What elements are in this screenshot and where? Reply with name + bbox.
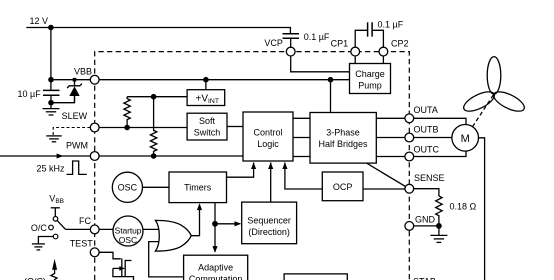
wire C1 bottom to ground node <box>51 95 75 102</box>
svg-text:Half Bridges: Half Bridges <box>318 139 368 149</box>
svg-text:CP1: CP1 <box>331 39 349 49</box>
wire motor return <box>479 138 485 280</box>
gate OR <box>155 220 191 251</box>
wire switch ground leg <box>38 237 53 244</box>
svg-text:Logic: Logic <box>257 139 279 149</box>
wire CP2 to charge pump <box>382 56 384 64</box>
wire Timers to sequencer/adaptive <box>214 203 216 252</box>
box 3-Phase Half Bridges <box>310 113 376 164</box>
wire TEST to mosfet gate <box>99 252 121 258</box>
wire PWM input <box>0 155 243 157</box>
box Control Logic <box>243 112 293 161</box>
wire bridges to OUTC <box>376 156 405 158</box>
svg-text:OUTC: OUTC <box>414 144 440 154</box>
waveform pulse symbol <box>67 161 87 174</box>
terminal SLEW <box>90 123 99 132</box>
terminal OUTB <box>405 133 414 142</box>
junction VINT tap <box>203 77 209 83</box>
wire VBB to switch contact <box>51 208 60 217</box>
terminal CP2 <box>379 47 388 56</box>
arrow into timers from OR <box>197 203 202 210</box>
wire bridges to OUTB <box>376 137 405 139</box>
svg-text:OSC: OSC <box>118 183 138 193</box>
junction R2 top <box>151 94 157 100</box>
fan blade left <box>461 88 497 115</box>
wire OUTA to motor <box>414 118 466 124</box>
svg-text:Adaptive: Adaptive <box>198 262 233 272</box>
terminal PWM <box>90 152 99 161</box>
terminal OUTA <box>405 114 414 123</box>
arrow into adaptive commutation <box>212 246 217 253</box>
svg-text:TEST: TEST <box>70 239 94 249</box>
box position sense (cut off) <box>284 274 347 280</box>
svg-text:25 kHz: 25 kHz <box>37 164 66 174</box>
terminal TEST <box>90 248 99 257</box>
wire OUTB to motor <box>414 137 452 139</box>
wire startup osc to OR gate <box>143 228 159 230</box>
svg-text:10 µF: 10 µF <box>18 89 42 99</box>
junction C1 bottom <box>48 100 54 106</box>
capacitor CP 0.1uF <box>355 19 403 47</box>
svg-text:Control: Control <box>253 128 282 138</box>
wire OR output to timers <box>191 204 199 235</box>
junction VBB-C1 <box>48 77 54 83</box>
wire Timers to control logic <box>227 163 254 178</box>
box Soft Switch <box>187 113 227 140</box>
svg-text:GND: GND <box>415 215 436 225</box>
svg-text:FC: FC <box>79 216 91 226</box>
wire sequencer to control logic <box>270 163 272 203</box>
wire OCP to control logic <box>285 163 322 190</box>
svg-text:VBB: VBB <box>74 67 92 77</box>
wire bridges to sense diagonal <box>367 163 406 187</box>
ground SLEW option <box>46 136 61 142</box>
svg-text:Timers: Timers <box>184 183 212 193</box>
terminal VCP <box>286 47 295 56</box>
wire FC to startup osc <box>99 228 115 230</box>
svg-text:SLEW: SLEW <box>62 111 88 121</box>
switch FC selector <box>49 217 66 239</box>
svg-text:Charge: Charge <box>355 69 385 79</box>
wire VINT stub <box>205 80 207 90</box>
fan blade up <box>487 57 501 95</box>
wire control to bridges B <box>293 137 310 139</box>
junction 12V rail <box>48 25 54 31</box>
ground shunt <box>430 226 447 243</box>
resistor shunt 0.18 ohm <box>436 196 442 226</box>
terminal FC <box>90 225 99 234</box>
wire OCP to sense <box>363 188 405 190</box>
svg-text:OSC: OSC <box>119 235 137 245</box>
junction R1-SLEW <box>124 125 130 131</box>
wire half-bridge supply <box>330 80 332 113</box>
transistor test mosfet <box>113 259 134 280</box>
svg-text:Sequencer: Sequencer <box>247 215 291 225</box>
wire 12V supply rail <box>26 28 290 34</box>
svg-text:12 V: 12 V <box>30 16 49 26</box>
wire sense to shunt <box>414 189 439 196</box>
box Adaptive Commutation <box>184 255 248 280</box>
wire control to bridges A <box>293 117 310 119</box>
resistor R2 pwm pull-up <box>150 97 156 156</box>
svg-text:(O/C): (O/C) <box>24 276 46 280</box>
oscillator OSC <box>112 172 142 202</box>
wire VBB rail <box>51 79 350 81</box>
svg-text:OCP: OCP <box>333 182 353 192</box>
svg-text:VCP: VCP <box>264 38 283 48</box>
svg-text:Commutation: Commutation <box>189 274 243 280</box>
wire to sequencer <box>215 223 240 225</box>
motor M <box>452 125 479 152</box>
svg-text:PWM: PWM <box>66 141 88 151</box>
svg-text:Pump: Pump <box>358 81 382 91</box>
wire OUTC to motor <box>414 151 466 156</box>
fan blade right <box>491 88 527 115</box>
terminal SENSE <box>405 184 414 193</box>
resistor R1 slew pull-up <box>124 97 130 128</box>
terminal OUTC <box>405 152 414 161</box>
arrow into control logic from OCP <box>282 162 287 169</box>
svg-text:STAB: STAB <box>413 277 436 280</box>
arrow PWM input <box>57 154 64 159</box>
wire SLEW dotted ground option <box>53 128 90 136</box>
terminal VBB <box>90 75 99 84</box>
wire SLEW to soft switch <box>99 127 187 129</box>
IC boundary dashed <box>95 52 410 280</box>
box Sequencer (Direction) <box>242 202 297 244</box>
svg-text:OUTB: OUTB <box>414 125 439 135</box>
fan shaft dashed <box>473 94 495 127</box>
wire VCP to charge pump <box>291 56 350 72</box>
wire GND to shunt <box>414 225 439 227</box>
svg-text:O/C: O/C <box>31 223 48 233</box>
terminal CP1 <box>351 47 360 56</box>
oscillator Startup OSC <box>113 216 143 246</box>
wire 12V drop to VBB <box>50 28 52 91</box>
ground switch <box>32 244 45 250</box>
svg-text:Soft: Soft <box>199 116 216 126</box>
wire resistor tops to VINT <box>127 96 187 98</box>
terminal GND <box>405 222 414 231</box>
svg-text:(Direction): (Direction) <box>248 227 290 237</box>
svg-text:Switch: Switch <box>194 128 221 138</box>
arrow into sequencer <box>235 221 242 226</box>
box Charge Pump <box>350 64 391 94</box>
capacitor VCP 0.1uF <box>283 32 330 47</box>
svg-text:OUTA: OUTA <box>414 105 438 115</box>
box Timers <box>169 172 227 203</box>
arrow into control logic from timers <box>251 162 256 169</box>
wire OR lower input from below <box>149 242 184 277</box>
arrow continuation lower-left <box>51 259 57 280</box>
wire control to bridges C <box>293 156 310 158</box>
wire soft switch to control logic <box>227 126 243 128</box>
junction R2-PWM <box>151 153 157 159</box>
wire switch to FC <box>66 228 91 230</box>
junction sequencer tap <box>212 221 218 227</box>
junction half-bridge supply tap <box>328 77 334 83</box>
svg-text:0.18 Ω: 0.18 Ω <box>450 202 477 212</box>
box OCP <box>322 172 363 201</box>
svg-text:M: M <box>461 133 470 145</box>
box +VINT regulator <box>187 90 225 106</box>
arrow into control logic from sequencer <box>268 162 273 169</box>
wire CP1 to charge pump <box>354 56 356 64</box>
svg-text:3-Phase: 3-Phase <box>326 128 360 138</box>
wire bridges to OUTA <box>376 117 405 119</box>
ground filter cap <box>43 103 60 115</box>
wire OSC to Timers <box>143 186 170 188</box>
svg-text:0.1 µF: 0.1 µF <box>378 19 404 29</box>
svg-text:0.1 µF: 0.1 µF <box>304 32 330 42</box>
zener diode transient suppressor <box>67 78 82 103</box>
junction shunt ground <box>436 223 442 229</box>
svg-text:SENSE: SENSE <box>414 173 445 183</box>
svg-text:CP2: CP2 <box>391 39 409 49</box>
capacitor C1 10uF <box>43 89 60 91</box>
